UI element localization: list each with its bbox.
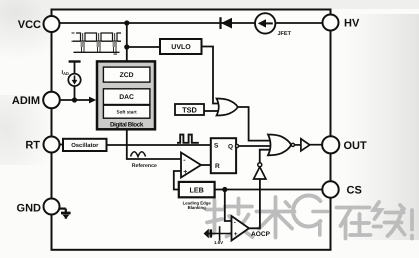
wire ADIM to digital block	[52, 99, 90, 101]
wire comparator to flip-flop R	[201, 164, 211, 166]
wire oscillator to flip-flop S	[107, 144, 211, 146]
soft start block	[103, 105, 149, 118]
ZCD block	[103, 67, 149, 82]
svg-text:ZCD: ZCD	[120, 72, 134, 79]
wire CS to LEB	[215, 189, 323, 191]
svg-text:LEB: LEB	[190, 185, 204, 194]
svg-text:Oscillator: Oscillator	[71, 142, 99, 149]
wire branch to UVLO	[127, 46, 160, 48]
current source IAD supply bar	[69, 60, 81, 62]
svg-text:RT: RT	[25, 140, 40, 152]
wire VCC branch down to digital block	[126, 23, 128, 61]
IC boundary interior	[53, 11, 330, 249]
pin VCC	[44, 16, 60, 32]
NOR gate U7	[268, 135, 291, 156]
svg-text:S: S	[214, 142, 219, 149]
svg-text:Reference: Reference	[132, 163, 157, 169]
pin RT	[44, 137, 60, 153]
watermark 术	[257, 197, 295, 238]
wire digital block to reference	[127, 129, 181, 159]
wire OR gate to NOR gate	[238, 107, 270, 141]
IC boundary box	[52, 10, 331, 250]
wire inverter to NOR gate	[260, 150, 270, 163]
node junction UVLO branch	[124, 44, 129, 49]
inverter U6	[254, 167, 266, 179]
svg-text:-: -	[234, 219, 236, 226]
svg-text:ADIM: ADIM	[12, 95, 40, 107]
wire TSD to OR gate	[204, 110, 219, 112]
svg-text:OUT: OUT	[344, 140, 368, 152]
pin GND	[44, 199, 60, 215]
current source IAD	[68, 74, 80, 86]
svg-text:+: +	[234, 231, 238, 238]
pin HV	[323, 15, 339, 31]
clock pulse symbol	[177, 135, 199, 143]
svg-text:Q: Q	[228, 143, 233, 150]
svg-text:Digital Block: Digital Block	[110, 122, 144, 129]
pin OUT	[322, 136, 339, 153]
ground symbol at GND	[60, 208, 66, 210]
svg-text:GND: GND	[17, 203, 42, 215]
driver buffer U8	[301, 139, 310, 151]
svg-text:+: +	[183, 169, 187, 176]
watermark 技	[207, 199, 253, 238]
watermark 在	[337, 208, 371, 239]
timing waveform sketch	[72, 33, 122, 55]
PWM comparator U4	[181, 153, 201, 178]
watermark ring logo	[293, 196, 327, 235]
wire NOR to driver	[295, 144, 301, 146]
wire Q to NOR gate	[239, 145, 270, 147]
TSD block	[175, 104, 204, 115]
svg-text:Blanking: Blanking	[188, 205, 207, 210]
svg-text:TSD: TSD	[182, 105, 197, 114]
node junction on VCC rail	[124, 20, 129, 25]
svg-text:R: R	[215, 163, 220, 170]
watermark exclamation	[410, 210, 414, 239]
JFET current source	[255, 13, 275, 33]
wire LEB to comparator plus	[174, 171, 181, 190]
svg-text:IAD: IAD	[62, 70, 69, 76]
svg-text:CS: CS	[347, 185, 362, 197]
diode D1 on HV rail	[219, 17, 221, 29]
1.6V reference battery	[205, 233, 232, 235]
wire UVLO to OR gate	[202, 47, 220, 104]
flip-flop U3	[211, 138, 236, 173]
oscillator block	[63, 139, 107, 151]
pin CS	[322, 181, 338, 197]
wire AOCP to inverter	[249, 179, 260, 228]
svg-text:HV: HV	[344, 18, 360, 30]
svg-text:UVLO: UVLO	[171, 44, 191, 51]
DAC block	[103, 89, 149, 105]
digital block	[97, 61, 155, 129]
wire CS node to AOCP minus	[225, 190, 232, 222]
svg-text:Soft start: Soft start	[117, 109, 138, 114]
pin ADIM	[43, 92, 60, 109]
UVLO block	[160, 39, 202, 54]
svg-text:VCC: VCC	[18, 19, 41, 31]
svg-text:1.6V: 1.6V	[214, 240, 223, 245]
LEB block	[179, 182, 215, 197]
wire IAD to ADIM node	[74, 86, 76, 100]
watermark 线	[374, 202, 405, 236]
wire driver to OUT	[310, 144, 323, 146]
node CS junction	[222, 187, 227, 192]
flip-flop Q bubble	[235, 144, 238, 147]
reference sine symbol	[131, 152, 146, 157]
wire RT to oscillator	[52, 144, 64, 146]
svg-text:JFET: JFET	[278, 31, 292, 37]
wire VCC to HV rail	[52, 22, 323, 24]
svg-text:DAC: DAC	[119, 94, 134, 101]
svg-text:AOCP: AOCP	[251, 231, 271, 238]
node ADIM junction	[72, 97, 77, 102]
OR gate U2	[217, 99, 238, 116]
AOCP comparator U5	[232, 216, 250, 241]
